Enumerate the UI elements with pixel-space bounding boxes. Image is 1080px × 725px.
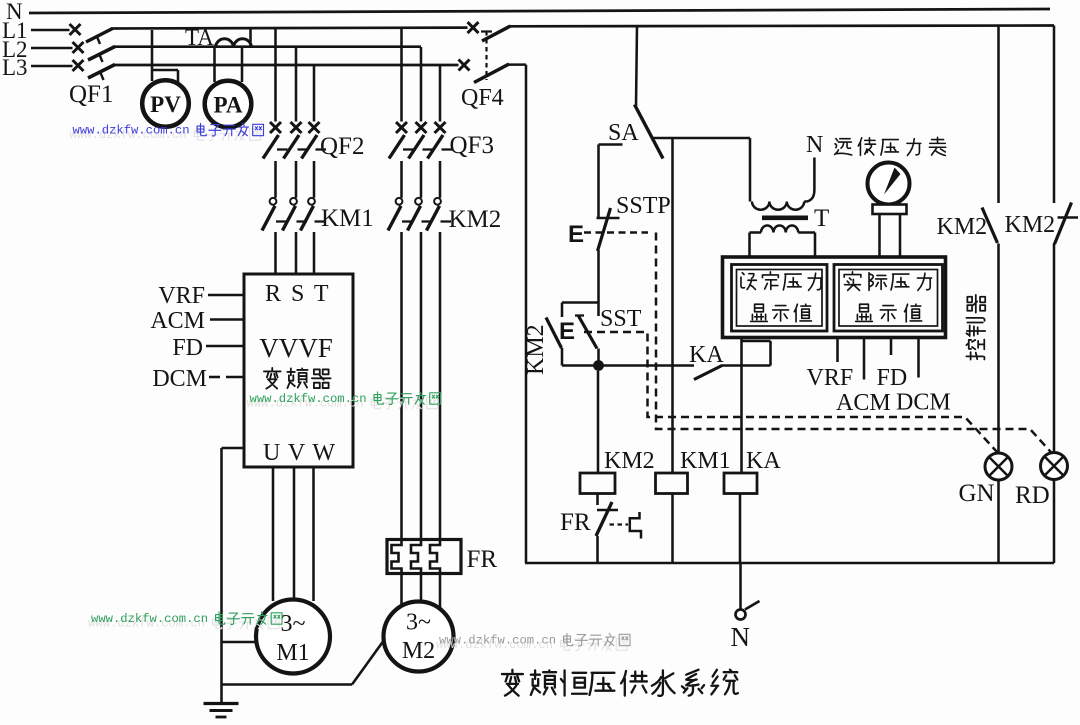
svg-text:E: E — [559, 318, 575, 345]
svg-text:www.dzkfw.com.cn: www.dzkfw.com.cn — [250, 392, 367, 406]
svg-text:FD: FD — [172, 335, 203, 361]
svg-text:L3: L3 — [2, 55, 28, 80]
svg-text:www.dzkfw.com.cn: www.dzkfw.com.cn — [439, 634, 556, 648]
svg-text:N: N — [731, 622, 751, 652]
svg-text:www.dzkfw.com.cn: www.dzkfw.com.cn — [73, 124, 190, 138]
svg-text:RD: RD — [1015, 482, 1050, 509]
svg-text:U V W: U V W — [263, 440, 336, 466]
svg-text:ACM: ACM — [150, 308, 205, 334]
svg-text:KM2: KM2 — [604, 448, 655, 474]
svg-text:VRF: VRF — [158, 283, 205, 309]
svg-text:KM2: KM2 — [449, 206, 502, 233]
svg-text:www.dzkfw.com.cn: www.dzkfw.com.cn — [91, 612, 208, 626]
svg-text:QF1: QF1 — [69, 81, 113, 108]
svg-text:T: T — [814, 205, 829, 232]
svg-text:ACM: ACM — [836, 390, 891, 416]
svg-text:KM1: KM1 — [321, 205, 374, 232]
svg-text:KA: KA — [746, 448, 781, 474]
svg-text:SA: SA — [608, 120, 639, 146]
svg-text:M1: M1 — [276, 640, 309, 666]
svg-text:KM2: KM2 — [937, 214, 988, 240]
svg-text:VVVF: VVVF — [259, 333, 333, 363]
svg-text:FD: FD — [877, 365, 908, 391]
svg-text:FR: FR — [467, 546, 498, 573]
svg-text:VRF: VRF — [807, 365, 854, 391]
svg-text:KA: KA — [689, 342, 724, 368]
svg-text:E: E — [568, 221, 584, 248]
svg-text:KM2: KM2 — [523, 324, 549, 375]
svg-text:DCM: DCM — [896, 390, 951, 416]
svg-text:M2: M2 — [402, 638, 435, 664]
svg-text:DCM: DCM — [152, 366, 207, 392]
svg-text:3~: 3~ — [281, 611, 306, 637]
svg-text:TA: TA — [185, 25, 214, 50]
svg-text:PV: PV — [150, 92, 181, 117]
svg-text:N: N — [806, 132, 823, 158]
svg-text:QF3: QF3 — [450, 132, 494, 159]
svg-text:FR: FR — [560, 509, 591, 536]
svg-text:KM2: KM2 — [1005, 212, 1056, 238]
svg-text:R S T: R S T — [265, 281, 331, 307]
svg-text:KM1: KM1 — [680, 448, 731, 474]
svg-text:QF2: QF2 — [320, 133, 364, 160]
svg-text:SSTP: SSTP — [616, 193, 671, 219]
svg-text:SST: SST — [600, 306, 642, 332]
svg-text:PA: PA — [214, 93, 243, 118]
svg-text:QF4: QF4 — [461, 85, 504, 111]
svg-text:3~: 3~ — [406, 610, 431, 636]
svg-text:GN: GN — [959, 480, 995, 507]
